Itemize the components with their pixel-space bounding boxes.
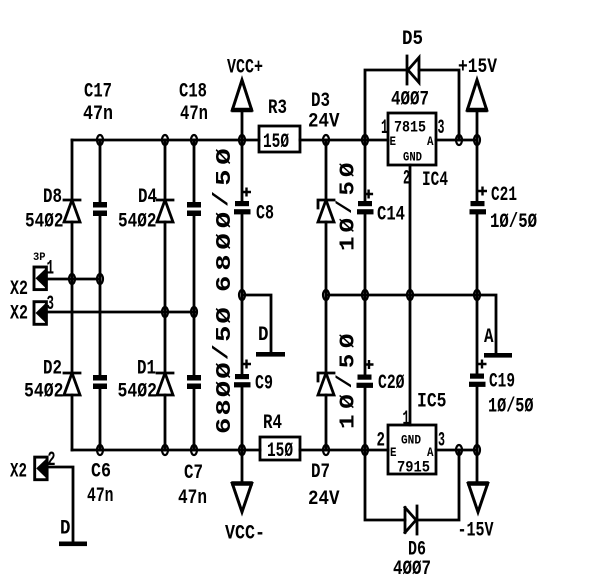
- connector X2 pin 3: [34, 302, 46, 325]
- value 24V (D7): [308, 488, 340, 511]
- capacitor C9 (polarized): [234, 360, 251, 388]
- svg-text:54Ø2: 54Ø2: [118, 381, 158, 404]
- junction mid bus / C21 C19 A net: [474, 290, 480, 300]
- diode D5 (bypass, cathode left): [407, 56, 419, 84]
- svg-text:1: 1: [381, 117, 388, 140]
- pin number 1 (IC5): [403, 408, 410, 431]
- svg-text:Ø: Ø: [336, 218, 360, 233]
- svg-text:54Ø2: 54Ø2: [25, 211, 64, 234]
- svg-text:1: 1: [47, 258, 55, 281]
- svg-text:3P: 3P: [33, 252, 46, 264]
- svg-text:2: 2: [377, 430, 386, 453]
- svg-text:8: 8: [213, 254, 236, 270]
- label D4: [138, 186, 157, 209]
- wire D5 bypass loop right leg: [419, 70, 459, 140]
- svg-text:D: D: [258, 324, 269, 347]
- wire bottom bus right (R4 to IC5 input): [300, 449, 388, 452]
- pin name A (IC5): [427, 445, 434, 460]
- label C21: [491, 184, 517, 207]
- resistor R3 box: [259, 126, 300, 152]
- junction bottom bus / C9 VCC-: [239, 445, 245, 455]
- junction mid bus / C14 C20: [362, 290, 368, 300]
- wire D6 bypass loop left leg: [365, 450, 405, 520]
- label D6: [408, 539, 426, 562]
- svg-text:A: A: [427, 134, 434, 149]
- junction IC4 output / C21 +15V: [474, 135, 480, 145]
- svg-text:Ø: Ø: [336, 333, 360, 348]
- pin number 3 (X2): [47, 293, 55, 316]
- value 150 (R3): [263, 131, 289, 154]
- svg-text:-15V: -15V: [458, 520, 494, 543]
- svg-text:54Ø2: 54Ø2: [118, 211, 157, 234]
- supply symbol VCC+: [231, 80, 252, 110]
- zener diode D7: [318, 373, 334, 395]
- junction mid bus / IC GND pins: [407, 290, 413, 300]
- svg-text:15Ø: 15Ø: [267, 440, 293, 463]
- pin number 3 (IC4): [438, 117, 445, 140]
- capacitor C8 (polarized): [234, 188, 251, 215]
- wire vertical C21 branch with +15V stub: [476, 110, 479, 295]
- wire IC4 output row: [436, 139, 477, 142]
- wire D6 bypass loop right leg: [417, 450, 459, 520]
- value 47n (C17): [83, 103, 113, 126]
- text 7815 (IC4): [394, 119, 426, 137]
- node label D (mid ground): [258, 324, 269, 347]
- junction bottom bus / C6: [97, 445, 103, 455]
- label IC5: [417, 391, 447, 414]
- wire IC5 output row: [436, 449, 477, 452]
- label IC4: [422, 169, 448, 192]
- label 3P (X2): [33, 252, 46, 264]
- wire vertical C8/C9 branch with VCC+ and VCC- stubs: [241, 110, 244, 483]
- op-amp/regulator IC5 7915 box: [388, 425, 436, 474]
- junction bottom bus / D7: [323, 445, 329, 455]
- svg-text:+15V: +15V: [458, 56, 497, 79]
- connector X2 pin 1: [34, 267, 46, 290]
- junction mid bus / C8 C9 D net: [239, 290, 245, 300]
- svg-text:C18: C18: [179, 81, 207, 104]
- svg-text:5: 5: [336, 181, 360, 195]
- label D3: [311, 90, 330, 113]
- value 5402 (D4): [118, 211, 157, 234]
- svg-text:6: 6: [213, 276, 236, 292]
- junction X2 pin3 / D4 branch: [162, 307, 168, 317]
- svg-text:54Ø2: 54Ø2: [24, 381, 64, 404]
- svg-text:D5: D5: [402, 28, 423, 51]
- svg-text:47n: 47n: [83, 103, 113, 126]
- value 6800/50 (C8, rotated): [211, 148, 237, 292]
- junction top bus / C14 D5 IC4 input: [362, 135, 368, 145]
- label C7: [184, 462, 203, 485]
- wire mid ground bus right: [326, 294, 477, 297]
- svg-text:8: 8: [213, 399, 236, 415]
- label D7: [311, 461, 330, 484]
- svg-text:/: /: [211, 344, 234, 360]
- svg-text:4ØØ7: 4ØØ7: [391, 89, 429, 112]
- label +15V: [458, 56, 497, 79]
- svg-text:D2: D2: [43, 358, 62, 381]
- value 10/50 (C14, rotated): [333, 162, 360, 251]
- value 150 (R4): [267, 440, 293, 463]
- svg-text:Ø: Ø: [213, 233, 236, 250]
- value 47n (C6): [87, 485, 114, 508]
- label X2 (pin3): [10, 303, 28, 326]
- svg-text:47n: 47n: [87, 485, 114, 508]
- svg-text:3: 3: [438, 117, 445, 140]
- svg-text:X2: X2: [10, 303, 28, 326]
- pin name E (IC5): [390, 445, 397, 460]
- pin name E (IC4): [390, 134, 397, 149]
- diode D2: [64, 373, 80, 395]
- label -15V: [458, 520, 494, 543]
- junction bottom bus / C20 D6 IC5 input: [362, 445, 368, 455]
- wire vertical D4/D1 branch: [164, 140, 167, 450]
- svg-text:A: A: [484, 326, 494, 349]
- connector X2 pin 2: [35, 457, 47, 480]
- svg-text:47n: 47n: [180, 103, 208, 126]
- capacitor C6: [93, 375, 107, 389]
- junction X2 pin3 / C18 branch: [191, 307, 197, 317]
- value 10/50 (C20, rotated): [333, 333, 360, 429]
- value 5402 (D1): [118, 381, 158, 404]
- wire bottom bus left (VCC- rail): [72, 449, 260, 452]
- svg-text:C19: C19: [489, 371, 515, 394]
- svg-text:Ø: Ø: [213, 307, 236, 324]
- wire X2 pin2 to ground D: [47, 467, 73, 542]
- pin number 1 (IC4): [381, 117, 388, 140]
- text 7915 (IC5): [397, 459, 430, 477]
- junction IC5 output / D6: [456, 445, 462, 455]
- value 47n (C18): [180, 103, 208, 126]
- label C20: [378, 372, 405, 395]
- capacitor C18: [187, 202, 201, 216]
- svg-text:E: E: [390, 134, 397, 149]
- pin name GND (IC4): [403, 150, 422, 165]
- svg-text:IC4: IC4: [422, 169, 448, 192]
- ground flag D (mid, C8/C9 midpoint): [256, 352, 285, 357]
- diode D8: [64, 200, 80, 222]
- junction X2 pin1 / D8 branch: [69, 274, 75, 284]
- wire D net tap from C8/C9 midpoint: [242, 295, 271, 352]
- junction top bus / C18: [191, 135, 197, 145]
- label C14: [377, 204, 405, 227]
- label X2 (pin1): [10, 278, 28, 301]
- label VCC+: [227, 57, 263, 80]
- svg-text:1Ø/5Ø: 1Ø/5Ø: [488, 396, 534, 419]
- label C19: [489, 371, 515, 394]
- svg-text:Ø: Ø: [213, 211, 236, 228]
- value 4007 (D5): [391, 89, 429, 112]
- diode D4: [157, 200, 173, 222]
- svg-text:2: 2: [48, 449, 56, 472]
- svg-text:3: 3: [47, 293, 55, 316]
- op-amp/regulator IC4 7815 box: [388, 113, 436, 165]
- junction bottom bus / C7: [191, 445, 197, 455]
- label C17: [84, 81, 112, 104]
- ground flag A (regulator common): [484, 353, 512, 358]
- svg-text:1Ø/5Ø: 1Ø/5Ø: [490, 211, 537, 234]
- label C6: [91, 461, 111, 484]
- svg-text:7915: 7915: [397, 459, 430, 477]
- wire vertical D3/D7 branch: [325, 140, 328, 450]
- label VCC-: [225, 523, 265, 546]
- svg-text:D4: D4: [138, 186, 157, 209]
- svg-text:C2Ø: C2Ø: [378, 372, 405, 395]
- svg-text:5: 5: [213, 170, 236, 186]
- svg-text:E: E: [390, 445, 397, 460]
- resistor R4 box: [260, 437, 300, 460]
- zener diode D3: [318, 200, 334, 222]
- svg-text:Ø: Ø: [213, 148, 236, 165]
- ground flag D (X2 pin 2): [59, 542, 87, 547]
- label D5: [402, 28, 423, 51]
- label D8: [43, 186, 62, 209]
- svg-text:6: 6: [213, 418, 236, 434]
- svg-text:24V: 24V: [308, 488, 340, 511]
- value 24V (D3): [308, 111, 340, 134]
- wire X2 pin3 to rail: [46, 311, 196, 314]
- svg-text:C14: C14: [377, 204, 405, 227]
- svg-text:Ø: Ø: [336, 394, 360, 409]
- label D1: [137, 358, 156, 381]
- svg-text:D1: D1: [137, 358, 156, 381]
- label D2: [43, 358, 62, 381]
- svg-text:4ØØ7: 4ØØ7: [393, 558, 431, 581]
- svg-text:GND: GND: [401, 433, 421, 448]
- svg-text:24V: 24V: [308, 111, 340, 134]
- svg-text:C17: C17: [84, 81, 112, 104]
- wire top bus left (VCC+ rail): [72, 139, 259, 142]
- svg-text:/: /: [333, 200, 357, 214]
- diode D6 (bypass, cathode right): [405, 506, 417, 534]
- wire IC4 pin2 GND to mid bus: [409, 165, 412, 295]
- svg-text:/: /: [211, 191, 234, 207]
- svg-text:X2: X2: [10, 461, 27, 484]
- value 10/50 (C19): [488, 396, 534, 419]
- junction bottom bus / D1: [162, 445, 168, 455]
- pin number 2 (IC5): [377, 430, 386, 453]
- pin name GND (IC5): [401, 433, 421, 448]
- value 5402 (D8): [25, 211, 64, 234]
- value 6800/50 (C9, rotated): [211, 307, 237, 434]
- junction top bus / C8 VCC+: [239, 135, 245, 145]
- value 47n (C7): [178, 487, 207, 510]
- value 5402 (D2): [24, 381, 64, 404]
- pin name A (IC4): [427, 134, 434, 149]
- capacitor C19 (polarized): [469, 360, 487, 387]
- junction top bus / D3: [323, 135, 329, 145]
- diode D1: [157, 373, 173, 395]
- svg-text:GND: GND: [403, 150, 422, 165]
- svg-text:R3: R3: [268, 97, 287, 120]
- svg-text:Ø: Ø: [336, 162, 360, 177]
- svg-text:2: 2: [403, 168, 410, 191]
- junction IC5 output / C19 -15V: [474, 445, 480, 455]
- svg-text:X2: X2: [10, 278, 28, 301]
- capacitor C7: [187, 375, 201, 389]
- supply symbol -15V: [467, 484, 488, 513]
- junction mid bus / D3 D7: [323, 290, 329, 300]
- label X2 (pin2): [10, 461, 27, 484]
- label C8: [256, 203, 274, 226]
- svg-text:R4: R4: [263, 412, 282, 435]
- value 10/50 (C21): [490, 211, 537, 234]
- pin number 2 (IC4): [403, 168, 410, 191]
- svg-text:VCC-: VCC-: [225, 523, 265, 546]
- capacitor C21 (polarized): [470, 187, 488, 215]
- pin number 2 (X2): [48, 449, 56, 472]
- wire IC5 pin1 GND to mid bus: [409, 295, 412, 425]
- svg-text:D7: D7: [311, 461, 330, 484]
- svg-text:D: D: [60, 518, 71, 541]
- wire top bus right (R3 to IC4 input): [300, 139, 388, 142]
- label R4: [263, 412, 282, 435]
- svg-text:D8: D8: [43, 186, 62, 209]
- wire vertical C17/C6 branch: [99, 140, 102, 450]
- svg-text:C8: C8: [256, 203, 274, 226]
- wire vertical C18/C7 branch: [193, 140, 196, 450]
- capacitor C14 (polarized): [357, 190, 374, 215]
- svg-text:7815: 7815: [394, 119, 426, 137]
- svg-text:47n: 47n: [178, 487, 207, 510]
- pin number 1 (X2): [47, 258, 55, 281]
- svg-text:VCC+: VCC+: [227, 57, 263, 80]
- wire vertical C19 branch with -15V stub: [476, 295, 479, 483]
- pin number 3 (IC5): [438, 430, 445, 453]
- junction top bus / D4: [162, 135, 168, 145]
- svg-text:C9: C9: [255, 373, 273, 396]
- supply symbol +15V: [466, 80, 487, 110]
- junction top bus / C17: [97, 135, 103, 145]
- svg-text:C7: C7: [184, 462, 203, 485]
- svg-text:1: 1: [403, 408, 410, 431]
- wire vertical D8/D2 branch: [71, 140, 74, 450]
- wire D5 bypass loop left leg: [365, 70, 407, 140]
- svg-text:C21: C21: [491, 184, 517, 207]
- svg-text:15Ø: 15Ø: [263, 131, 289, 154]
- junction X2 pin1 / C17 branch: [97, 274, 103, 284]
- capacitor C17: [93, 202, 107, 216]
- svg-text:/: /: [333, 374, 357, 388]
- value 4007 (D6): [393, 558, 431, 581]
- wire A net tap: [477, 295, 496, 353]
- wire X2 pin1 to rail: [46, 278, 100, 281]
- capacitor C20 (polarized): [357, 360, 374, 388]
- wire vertical C14/C20 branch: [364, 140, 367, 450]
- svg-text:Ø: Ø: [213, 380, 236, 397]
- svg-text:C6: C6: [91, 461, 111, 484]
- svg-text:5: 5: [213, 326, 236, 342]
- label C9: [255, 373, 273, 396]
- svg-text:1: 1: [336, 415, 360, 429]
- junction IC4 output / D5: [456, 135, 462, 145]
- node label A (net flag): [484, 326, 494, 349]
- label R3: [268, 97, 287, 120]
- svg-text:Ø: Ø: [213, 362, 236, 379]
- node label D (X2 pin2 ground): [60, 518, 71, 541]
- svg-text:IC5: IC5: [417, 391, 447, 414]
- label C18: [179, 81, 207, 104]
- svg-text:1: 1: [336, 237, 360, 251]
- svg-text:3: 3: [438, 430, 445, 453]
- supply symbol VCC-: [231, 484, 252, 513]
- svg-text:5: 5: [336, 354, 360, 368]
